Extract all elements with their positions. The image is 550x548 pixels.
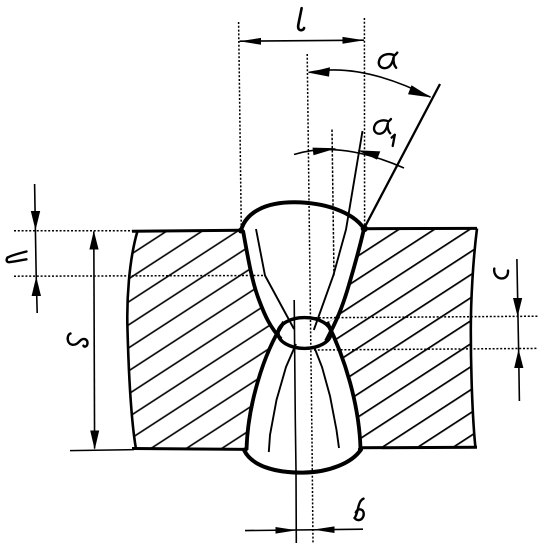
fusion line upper-left (thick) xyxy=(243,231,281,340)
junction top-left cap corner xyxy=(238,228,244,234)
fusion line lower-left (thick) xyxy=(247,322,285,450)
groove face lower-right (thin) xyxy=(314,346,339,448)
dimension alpha1 arc xyxy=(294,150,404,168)
label b (script) xyxy=(355,499,364,521)
root edge left extension to b xyxy=(294,300,296,543)
dimension alpha arc xyxy=(309,70,431,97)
extension line l right (dotted) xyxy=(363,18,365,228)
extension line l left (dotted) xyxy=(239,22,242,229)
arrow c upper xyxy=(513,298,522,317)
groove face lower-left (thin) xyxy=(269,344,296,452)
label h (rotated script) xyxy=(7,252,27,263)
arrow h upper xyxy=(31,211,40,230)
arrow alpha left xyxy=(308,67,330,76)
arrow alpha right xyxy=(408,85,431,97)
dimension h line xyxy=(35,184,38,313)
label alpha (script) xyxy=(379,53,397,69)
junction bottom-right cap corner xyxy=(358,447,363,452)
hatching left plate xyxy=(120,225,290,455)
junction top-right cap corner (angle vertex) xyxy=(361,225,368,232)
fusion line lower-right (thick) xyxy=(327,322,361,449)
alpha bevel line xyxy=(364,84,440,229)
alpha1 vertical reference line xyxy=(332,130,334,277)
label c (rotated script) xyxy=(494,269,508,279)
arrow alpha1 right xyxy=(357,150,380,159)
dimension b line xyxy=(245,529,363,530)
arrow b right xyxy=(313,526,334,533)
nugget ellipse (thick) xyxy=(278,318,331,349)
label s (rotated script) xyxy=(68,334,88,347)
arrow c lower xyxy=(514,349,523,368)
arrow h lower xyxy=(32,277,41,296)
weld cap bottom (thick) xyxy=(244,450,361,473)
arrow b left xyxy=(276,527,297,534)
extension line bottom-left xyxy=(70,450,134,451)
groove face upper-left (thin) xyxy=(256,229,294,329)
groove face upper-right extension (thin) xyxy=(314,131,363,330)
dimension l line xyxy=(240,40,364,41)
extension line h lower (dotted) xyxy=(14,275,265,278)
label alpha1 (script) xyxy=(374,119,395,146)
label l xyxy=(298,8,304,30)
plate top right (thick) xyxy=(361,227,477,230)
extension line c lower (dotted) xyxy=(314,348,538,350)
arrow l left xyxy=(239,38,261,45)
hatching right plate xyxy=(320,223,485,453)
plate left edge xyxy=(127,231,137,449)
extension line top-left (dotted) xyxy=(14,230,135,232)
arrow l right xyxy=(343,37,365,44)
arrow alpha1 left xyxy=(313,148,337,156)
plate right edge xyxy=(471,229,477,449)
dimension c line xyxy=(517,259,520,401)
extension line c upper (dotted) xyxy=(315,316,538,318)
centerline (dotted) xyxy=(307,54,313,543)
weld cap top (thick) xyxy=(241,202,364,230)
junction bottom-left cap corner xyxy=(242,447,247,452)
plate bottom left (thick) xyxy=(132,447,246,451)
plate bottom right (thick) xyxy=(359,446,477,450)
arrow s bottom xyxy=(90,431,99,450)
fusion line upper-right (thick) xyxy=(326,229,364,341)
dimension s line xyxy=(93,232,96,449)
plate top left (thick) xyxy=(132,230,241,231)
arrow s top xyxy=(89,231,98,250)
